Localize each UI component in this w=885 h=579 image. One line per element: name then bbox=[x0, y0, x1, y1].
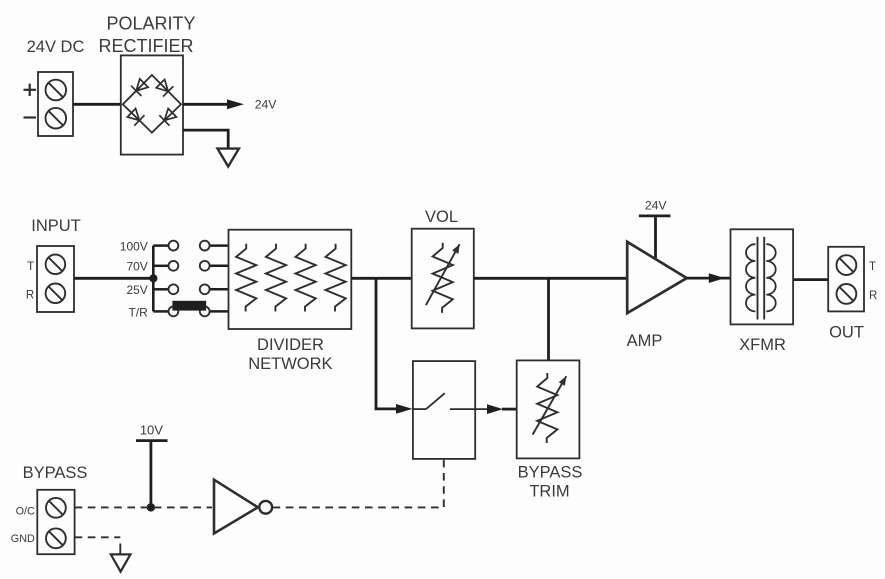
wire input to tap bus bbox=[74, 277, 153, 280]
ground (rectifier) bbox=[218, 149, 239, 167]
svg-text:DIVIDER: DIVIDER bbox=[257, 336, 324, 354]
tap label 100V bbox=[120, 239, 148, 253]
wire branch to switch bbox=[376, 278, 413, 414]
resistor R2 (divider) bbox=[266, 244, 286, 312]
ground (bypass) bbox=[111, 554, 131, 571]
divider network box bbox=[229, 230, 352, 329]
svg-text:24V: 24V bbox=[645, 198, 668, 212]
terminal block TB4 (BYPASS) bbox=[37, 490, 74, 554]
svg-text:GND: GND bbox=[11, 533, 35, 545]
transformer windings bbox=[746, 237, 776, 320]
tap label T/R bbox=[128, 305, 148, 319]
tap pin left (100V) bbox=[169, 241, 179, 251]
terminal block TB2 (INPUT) bbox=[37, 246, 74, 312]
svg-text:VOL: VOL bbox=[425, 208, 458, 226]
svg-text:T: T bbox=[27, 261, 34, 273]
tap pin right (70V) bbox=[200, 261, 210, 271]
svg-text:25V: 25V bbox=[126, 283, 147, 297]
diode D4 (bottom-right) bbox=[159, 109, 176, 126]
resistor R3 (divider) bbox=[296, 244, 316, 312]
wire VOL to AMP bbox=[474, 277, 627, 280]
tap label 25V bbox=[126, 283, 147, 297]
wire 24V output bbox=[183, 99, 244, 109]
switch S1 bbox=[413, 393, 488, 409]
label 24V DC bbox=[27, 38, 85, 56]
tap pin right (T/R) bbox=[200, 307, 210, 317]
tap pin stubs row 25V bbox=[153, 288, 228, 291]
junction dot (bypass) bbox=[147, 503, 155, 511]
VOL box bbox=[412, 229, 474, 329]
wire AMP to XFMR bbox=[687, 273, 731, 283]
wire divider to VOL bbox=[351, 277, 411, 280]
label BYPASS (trim) bbox=[518, 463, 583, 481]
switch box bbox=[413, 361, 475, 459]
tap pin stubs row 70V bbox=[153, 265, 228, 268]
label 24V (amp supply) bbox=[645, 198, 668, 212]
svg-text:TRIM: TRIM bbox=[529, 482, 569, 500]
tap pin stubs row 100V bbox=[153, 244, 228, 247]
svg-text:24V: 24V bbox=[255, 97, 278, 111]
svg-text:24V DC: 24V DC bbox=[27, 38, 85, 56]
tap pin stubs row T/R bbox=[153, 310, 228, 313]
transformer XFMR box bbox=[731, 229, 794, 324]
label XFMR bbox=[739, 336, 786, 354]
svg-text:R: R bbox=[26, 290, 34, 302]
terminal block TB1 (24V DC) bbox=[38, 72, 73, 136]
dashed wire GND bbox=[75, 537, 121, 554]
polarity rectifier box bbox=[121, 55, 183, 154]
jumper shunt on T/R tap bbox=[172, 301, 206, 311]
10V supply rail bbox=[136, 441, 168, 508]
diode D3 (bottom-left) bbox=[127, 109, 144, 126]
svg-text:OUT: OUT bbox=[829, 324, 864, 342]
svg-text:R: R bbox=[869, 290, 877, 302]
svg-text:NETWORK: NETWORK bbox=[248, 355, 332, 373]
potentiometer BYPASS TRIM bbox=[533, 373, 567, 443]
label T (out) bbox=[869, 261, 876, 273]
svg-text:70V: 70V bbox=[126, 259, 147, 273]
svg-text:XFMR: XFMR bbox=[739, 336, 786, 354]
label NETWORK bbox=[248, 355, 332, 373]
resistor R4 (divider) bbox=[326, 244, 346, 312]
svg-text:POLARITY: POLARITY bbox=[106, 14, 195, 34]
tap pin right (100V) bbox=[200, 241, 210, 251]
svg-text:AMP: AMP bbox=[627, 332, 663, 350]
junction dot (input bus) bbox=[149, 274, 157, 282]
label VOL bbox=[425, 208, 458, 226]
diode D1 (top-left) bbox=[131, 79, 148, 96]
label RECTIFIER bbox=[98, 36, 193, 56]
polarity label + bbox=[24, 84, 37, 96]
label 10V bbox=[140, 423, 163, 438]
potentiometer VOL bbox=[426, 243, 460, 313]
bypass trim box bbox=[517, 360, 580, 458]
dashed wire O/C to inverter bbox=[75, 506, 212, 508]
svg-text:RECTIFIER: RECTIFIER bbox=[98, 36, 193, 56]
svg-text:10V: 10V bbox=[140, 423, 163, 438]
wire switch to bypass trim bbox=[487, 404, 517, 414]
tap pin left (T/R) bbox=[169, 307, 179, 317]
label O/C bbox=[16, 506, 35, 518]
label R (input) bbox=[26, 290, 34, 302]
inverter U2 bbox=[214, 480, 258, 534]
label 24V (rectifier output) bbox=[255, 97, 278, 111]
label TRIM (trim) bbox=[529, 482, 569, 500]
resistor R1 (divider) bbox=[236, 244, 256, 312]
svg-text:T/R: T/R bbox=[128, 305, 148, 319]
label GND bbox=[11, 533, 35, 545]
tap pin right (25V) bbox=[200, 284, 210, 294]
tap bus wire bbox=[152, 246, 155, 312]
wire TB1 to rectifier bbox=[73, 103, 121, 106]
label R (out) bbox=[869, 290, 877, 302]
inverter bubble bbox=[259, 501, 272, 514]
svg-text:T: T bbox=[869, 261, 876, 273]
wire XFMR to OUT bbox=[793, 278, 828, 281]
svg-text:100V: 100V bbox=[120, 239, 148, 253]
label AMP bbox=[627, 332, 663, 350]
label OUT bbox=[829, 324, 864, 342]
terminal block TB3 (OUT) bbox=[828, 247, 864, 312]
label INPUT bbox=[31, 217, 81, 235]
tap pin left (25V) bbox=[169, 284, 179, 294]
tap label 70V bbox=[126, 259, 147, 273]
label BYPASS (block) bbox=[23, 464, 88, 482]
24V supply rail bbox=[639, 216, 671, 260]
label T (input) bbox=[27, 261, 34, 273]
diode D2 (top-right) bbox=[156, 79, 173, 96]
svg-text:BYPASS: BYPASS bbox=[23, 464, 88, 482]
dashed wire inverter to switch bbox=[273, 459, 444, 508]
label DIVIDER bbox=[257, 336, 324, 354]
op-amp AMP bbox=[627, 242, 687, 313]
svg-text:BYPASS: BYPASS bbox=[518, 463, 583, 481]
wire rectifier to ground bbox=[183, 130, 228, 149]
label POLARITY bbox=[106, 14, 195, 34]
tap pin left (70V) bbox=[169, 261, 179, 271]
svg-text:INPUT: INPUT bbox=[31, 217, 81, 235]
svg-text:O/C: O/C bbox=[16, 506, 35, 518]
polarity label - bbox=[24, 116, 37, 118]
diode bridge diamond bbox=[123, 75, 181, 133]
wire branch to bypass trim bbox=[547, 278, 550, 360]
